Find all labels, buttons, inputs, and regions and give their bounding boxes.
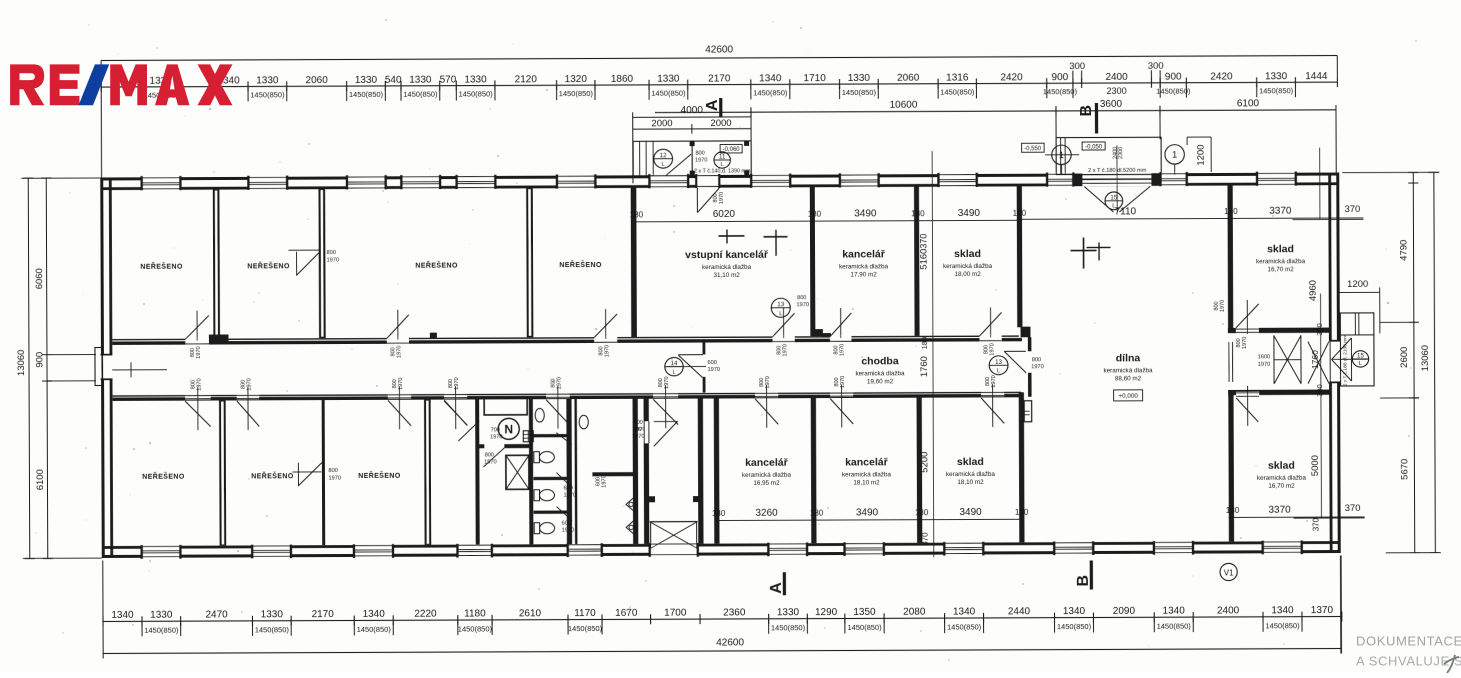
svg-text:1970: 1970 bbox=[1242, 337, 1248, 349]
svg-text:600: 600 bbox=[562, 521, 571, 527]
svg-text:1970: 1970 bbox=[564, 493, 576, 499]
door in partition P2 bottom with leader bbox=[292, 471, 321, 472]
svg-text:1450(850): 1450(850) bbox=[403, 90, 438, 99]
svg-text:1330: 1330 bbox=[261, 609, 284, 620]
wall under N-room with door bbox=[479, 444, 484, 448]
svg-text:6100: 6100 bbox=[35, 469, 46, 490]
svg-text:1330: 1330 bbox=[464, 74, 487, 85]
svg-text:-0,050: -0,050 bbox=[1085, 144, 1103, 150]
svg-text:900: 900 bbox=[1051, 72, 1068, 83]
svg-text:1: 1 bbox=[1059, 150, 1064, 160]
building top wall inner edge bbox=[102, 182, 1337, 190]
svg-text:2440: 2440 bbox=[1008, 606, 1031, 617]
svg-text:180: 180 bbox=[1224, 207, 1238, 216]
svg-text:2600: 2600 bbox=[1399, 347, 1410, 368]
bottom row partition b2-b3 bbox=[322, 400, 326, 546]
svg-text:keramická dlažba: keramická dlažba bbox=[842, 471, 892, 478]
svg-text:V1: V1 bbox=[1224, 568, 1234, 577]
svg-text:N: N bbox=[504, 422, 513, 436]
side exit passage bottom wall bbox=[1228, 390, 1331, 396]
door bottom sklad from passage bbox=[1236, 392, 1259, 398]
svg-text:1970: 1970 bbox=[840, 344, 846, 356]
top chain 1450(850) window sublabels bbox=[141, 88, 142, 102]
vstupni entry door swing bbox=[697, 188, 698, 213]
svg-text:1350: 1350 bbox=[853, 607, 876, 618]
svg-text:1970: 1970 bbox=[1031, 364, 1043, 370]
window top wall T12 1450(850) bbox=[1161, 172, 1187, 187]
side exit double door leaves bbox=[1332, 338, 1352, 359]
svg-text:1450(850): 1450(850) bbox=[940, 87, 975, 96]
door circle 12 L porch bbox=[654, 149, 673, 168]
svg-text:1450(850): 1450(850) bbox=[1265, 621, 1300, 630]
svg-text:370: 370 bbox=[918, 234, 928, 249]
left entrance axis mark bbox=[112, 369, 167, 370]
svg-text:1970: 1970 bbox=[1220, 300, 1226, 312]
svg-text:kancelář: kancelář bbox=[842, 248, 886, 260]
level label -0,050 box bbox=[1082, 142, 1105, 150]
svg-text:2080: 2080 bbox=[903, 607, 926, 618]
door 800/1970 corridor north side D4 with swing bbox=[773, 335, 795, 342]
svg-text:42600: 42600 bbox=[705, 44, 733, 55]
garage door jamb piers 300 bbox=[1073, 174, 1083, 187]
door 800/1970 corridor south side S9 with swing bbox=[981, 392, 1004, 397]
bottom chain 1450(850) sublabels bbox=[142, 623, 143, 637]
door 800/1970 corridor north side D2 with swing bbox=[387, 337, 409, 344]
svg-text:-0,550: -0,550 bbox=[1024, 146, 1042, 152]
svg-text:dílna: dílna bbox=[1116, 352, 1141, 364]
sklad bottom east wall bbox=[1019, 392, 1025, 542]
kancelar b1 west wall bbox=[714, 398, 720, 544]
svg-text:180: 180 bbox=[915, 508, 929, 517]
window top wall T13 1450(850) bbox=[1257, 171, 1296, 186]
svg-text:2090: 2090 bbox=[1113, 606, 1136, 617]
svg-text:1970: 1970 bbox=[397, 346, 403, 358]
svg-text:2000: 2000 bbox=[651, 118, 672, 129]
svg-text:2420: 2420 bbox=[1000, 72, 1023, 83]
corridor east end wall with door bbox=[1028, 337, 1032, 351]
svg-text:1970: 1970 bbox=[454, 377, 460, 389]
partition kancelar-sklad top bbox=[914, 187, 920, 336]
window bottom wall B5 1450(850) bbox=[568, 543, 602, 557]
REMAX logo bbox=[10, 64, 232, 105]
svg-text:800: 800 bbox=[328, 468, 337, 474]
bottom dimension chain line bbox=[103, 616, 1342, 622]
top right 1200 window dim bbox=[1187, 136, 1211, 139]
svg-text:NEŘEŠENO: NEŘEŠENO bbox=[251, 471, 294, 480]
door 800/1970 corridor south side S5 with swing bbox=[546, 393, 570, 398]
svg-text:2300: 2300 bbox=[1118, 147, 1124, 159]
svg-text:1970: 1970 bbox=[765, 376, 771, 388]
svg-text:13: 13 bbox=[995, 359, 1002, 366]
sklad bottom right west wall bbox=[1228, 395, 1234, 542]
sanitary right room wall x635 bbox=[633, 398, 639, 544]
svg-text:4790: 4790 bbox=[1399, 240, 1410, 261]
svg-text:18,10 m2: 18,10 m2 bbox=[853, 479, 880, 486]
building outer wall bottom edge bbox=[102, 550, 1341, 558]
partition kancelar b1-b2 bbox=[811, 398, 817, 544]
bottom row partition b1-b2 bbox=[219, 400, 226, 546]
svg-text:3490: 3490 bbox=[958, 208, 981, 219]
top rooms interior dim line 6020 3490 3490 bbox=[633, 220, 1021, 222]
svg-text:1970: 1970 bbox=[328, 476, 340, 482]
vstupni axis crosses bbox=[718, 235, 744, 237]
svg-text:keramická dlažba: keramická dlažba bbox=[1104, 367, 1154, 374]
svg-text:16,70 m2: 16,70 m2 bbox=[1267, 266, 1294, 273]
svg-text:1340: 1340 bbox=[759, 73, 782, 84]
svg-text:kancelář: kancelář bbox=[745, 457, 789, 469]
window bottom wall B11 1450(850) bbox=[1263, 540, 1302, 554]
svg-text:13: 13 bbox=[777, 301, 784, 308]
svg-text:L: L bbox=[721, 162, 724, 168]
svg-text:3490: 3490 bbox=[856, 507, 879, 518]
building left wall bbox=[100, 177, 105, 558]
svg-text:1330: 1330 bbox=[657, 74, 680, 85]
svg-text:7110: 7110 bbox=[1115, 206, 1137, 217]
svg-text:31,10 m2: 31,10 m2 bbox=[713, 272, 740, 279]
dilna axis crosses bbox=[1083, 238, 1085, 269]
svg-text:2610: 2610 bbox=[519, 608, 542, 619]
svg-text:540: 540 bbox=[385, 75, 402, 86]
pen mark bottom right corner bbox=[1444, 655, 1459, 673]
window bottom wall B4 1450(850) bbox=[458, 543, 492, 557]
svg-text:2470: 2470 bbox=[205, 609, 228, 620]
door circle 15 L garage bbox=[1105, 192, 1123, 210]
svg-text:1970: 1970 bbox=[695, 158, 707, 164]
door circle 11 L porch inner bbox=[714, 152, 730, 168]
door 800/1970 corridor north side D6 with swing bbox=[980, 334, 1002, 341]
right washroom divider wall bbox=[592, 472, 637, 476]
partition vstupni-kancelar with steps bbox=[810, 187, 816, 330]
svg-text:2220: 2220 bbox=[414, 609, 437, 620]
dilna east wall / sklad partition P8 bbox=[1227, 185, 1233, 328]
svg-text:800: 800 bbox=[633, 427, 642, 433]
svg-text:1330: 1330 bbox=[256, 75, 279, 86]
svg-text:5670: 5670 bbox=[1399, 459, 1410, 480]
svg-text:sklad: sklad bbox=[954, 248, 981, 260]
urinal U2 bbox=[626, 520, 634, 534]
svg-text:800: 800 bbox=[797, 295, 806, 301]
svg-text:B: B bbox=[1075, 575, 1092, 587]
svg-text:1330: 1330 bbox=[848, 73, 871, 84]
svg-text:5160: 5160 bbox=[919, 249, 930, 270]
window top wall T1 1450(850) bbox=[142, 176, 181, 191]
vstupni entry door in top wall bbox=[696, 174, 719, 187]
dilna interior dim line 7110 3370 bbox=[1021, 217, 1363, 219]
window top wall T5 1450(850) bbox=[457, 174, 496, 189]
door 800/1970 corridor north side D5 with swing bbox=[830, 335, 851, 342]
svg-text:42600: 42600 bbox=[716, 637, 744, 648]
dilna left wall upper bbox=[1017, 186, 1023, 327]
porch divider bbox=[692, 141, 693, 176]
svg-text:300: 300 bbox=[1069, 61, 1085, 72]
svg-text:1970: 1970 bbox=[247, 378, 253, 390]
svg-text:15: 15 bbox=[1110, 194, 1117, 201]
svg-text:3260: 3260 bbox=[755, 508, 778, 519]
svg-text:keramická dlažba: keramická dlažba bbox=[946, 471, 996, 478]
svg-text:1450(850): 1450(850) bbox=[1043, 87, 1078, 96]
svg-text:NEŘEŠENO: NEŘEŠENO bbox=[140, 262, 183, 271]
rear vestibule opening in bottom wall with stairs bbox=[650, 543, 698, 557]
svg-text:800: 800 bbox=[695, 151, 704, 157]
duct symbol on sklad bottom east wall bbox=[1024, 401, 1032, 422]
vertical reference line through sklad rooms bbox=[932, 151, 934, 557]
svg-text:1450(850): 1450(850) bbox=[250, 90, 285, 99]
vestibule west door opening bbox=[644, 421, 649, 443]
svg-text:180: 180 bbox=[1013, 209, 1027, 218]
svg-text:1340: 1340 bbox=[1163, 606, 1186, 617]
change marker V1 circle bottom bbox=[1220, 563, 1237, 580]
svg-text:A: A bbox=[704, 99, 721, 111]
top row partition room2-room3 bbox=[318, 189, 325, 338]
door 800/1970 corridor south side S2 with swing bbox=[237, 395, 259, 400]
passage stair mid line bbox=[1274, 359, 1301, 360]
svg-text:900: 900 bbox=[1165, 72, 1182, 83]
svg-text:1970: 1970 bbox=[632, 434, 644, 440]
svg-text:4960: 4960 bbox=[1308, 280, 1319, 301]
svg-text:6020: 6020 bbox=[713, 209, 736, 220]
svg-text:kancelář: kancelář bbox=[845, 456, 889, 468]
svg-text:4000: 4000 bbox=[681, 105, 704, 116]
door circle 13 L at vstupni door bbox=[771, 298, 790, 317]
building right wall bbox=[1336, 173, 1341, 554]
svg-text:1760: 1760 bbox=[1310, 350, 1320, 369]
porch door swing bbox=[666, 154, 691, 175]
level label -0,550 box bbox=[1022, 143, 1045, 152]
svg-text:1450(850): 1450(850) bbox=[458, 624, 493, 633]
svg-text:1340: 1340 bbox=[363, 609, 386, 620]
svg-text:NEŘEŠENO: NEŘEŠENO bbox=[415, 261, 458, 270]
svg-text:18,10 m2: 18,10 m2 bbox=[957, 479, 984, 486]
axis circle 1 right bbox=[1165, 145, 1184, 164]
side exit exterior landing with step bbox=[1340, 313, 1374, 386]
svg-text:L: L bbox=[779, 311, 782, 317]
svg-text:NEŘEŠENO: NEŘEŠENO bbox=[247, 261, 290, 270]
window top wall T9 1450(850) bbox=[840, 173, 879, 188]
top row partition room3-room4 bbox=[526, 188, 533, 337]
entry porch outline bbox=[633, 141, 751, 176]
svg-text:570: 570 bbox=[440, 75, 457, 86]
svg-text:11: 11 bbox=[719, 153, 726, 160]
sanitary door swings misc bbox=[444, 401, 467, 425]
svg-text:800: 800 bbox=[327, 250, 336, 256]
svg-text:1970: 1970 bbox=[557, 377, 563, 389]
svg-text:L: L bbox=[672, 370, 675, 376]
svg-text:1670: 1670 bbox=[615, 608, 638, 619]
top row partition room4-vstupni kancelar thick bbox=[631, 188, 637, 337]
svg-text:370: 370 bbox=[1344, 204, 1360, 215]
garage center line bbox=[1117, 145, 1118, 211]
svg-text:NEŘEŠENO: NEŘEŠENO bbox=[559, 260, 602, 269]
svg-text:1970: 1970 bbox=[719, 192, 725, 204]
svg-text:1970: 1970 bbox=[196, 346, 202, 358]
window top wall T7 1450(850) bbox=[649, 174, 688, 189]
svg-text:1970: 1970 bbox=[708, 367, 720, 373]
svg-text:2360: 2360 bbox=[723, 607, 746, 618]
svg-text:keramická dlažba: keramická dlažba bbox=[943, 263, 993, 270]
svg-text:1450(850): 1450(850) bbox=[559, 89, 594, 98]
pilaster jog on corridor top wall bbox=[430, 333, 437, 339]
window top wall T3 1450(850) bbox=[347, 175, 386, 190]
window top wall T4 1450(850) bbox=[401, 175, 440, 190]
svg-text:L: L bbox=[1359, 361, 1362, 367]
svg-text:13060: 13060 bbox=[1420, 345, 1431, 371]
svg-text:15: 15 bbox=[1357, 352, 1364, 359]
window bottom wall B10 1450(850) bbox=[1154, 541, 1193, 555]
svg-text:1970: 1970 bbox=[398, 378, 404, 390]
door top sklad to passage bbox=[1236, 328, 1259, 333]
svg-text:keramická dlažba: keramická dlažba bbox=[856, 370, 906, 377]
svg-text:sklad: sklad bbox=[1267, 243, 1294, 255]
svg-text:5200: 5200 bbox=[919, 452, 930, 473]
svg-text:1970: 1970 bbox=[327, 258, 339, 264]
window bottom wall B1 1450(850) bbox=[142, 545, 181, 559]
svg-text:2170: 2170 bbox=[312, 609, 335, 620]
svg-text:1970: 1970 bbox=[196, 378, 202, 390]
left entrance door opening in left wall bbox=[100, 354, 113, 380]
svg-text:1450(850): 1450(850) bbox=[1157, 622, 1192, 631]
svg-text:1316: 1316 bbox=[946, 72, 969, 83]
svg-text:3600: 3600 bbox=[1100, 99, 1123, 110]
vestibule east wall bbox=[698, 398, 704, 544]
wash basin right room bbox=[579, 415, 588, 429]
corridor top wall bbox=[112, 335, 1018, 340]
svg-text:180: 180 bbox=[630, 210, 644, 219]
svg-text:180: 180 bbox=[808, 210, 822, 219]
svg-text:180: 180 bbox=[712, 509, 726, 518]
door 800/1970 corridor south side S6 with swing bbox=[653, 393, 678, 398]
top dimension chain line bbox=[101, 82, 1337, 88]
garage door opening in top wall bbox=[1082, 172, 1152, 186]
shaft box with X bbox=[506, 455, 529, 489]
door 800/1970 corridor north side D3 with swing bbox=[594, 336, 617, 343]
svg-text:1450(850): 1450(850) bbox=[753, 88, 788, 97]
svg-text:1970: 1970 bbox=[664, 376, 670, 388]
svg-text:88,60 m2: 88,60 m2 bbox=[1115, 375, 1142, 382]
svg-text:1970: 1970 bbox=[991, 375, 997, 387]
sanitary wall x566 thick bbox=[566, 399, 572, 545]
garage exterior apron bbox=[1056, 137, 1161, 174]
svg-text:2400: 2400 bbox=[1217, 605, 1240, 616]
svg-text:1330: 1330 bbox=[777, 607, 800, 618]
electro symbol N circle bbox=[498, 418, 519, 439]
svg-text:A SCHVALUJE SE: A SCHVALUJE SE bbox=[1356, 654, 1461, 669]
svg-text:1450(850): 1450(850) bbox=[458, 89, 493, 98]
svg-text:1450(850): 1450(850) bbox=[771, 623, 806, 632]
svg-text:DOKUMENTACE: DOKUMENTACE bbox=[1356, 634, 1461, 649]
svg-text:1340: 1340 bbox=[953, 606, 976, 617]
wc stall door swings bbox=[556, 433, 572, 445]
svg-text:B: B bbox=[1078, 105, 1095, 117]
svg-text:chodba: chodba bbox=[861, 355, 899, 367]
svg-text:1450(850): 1450(850) bbox=[842, 88, 877, 97]
overall bottom dimension 42600 bbox=[103, 648, 1341, 654]
sanitary N-room top counter bbox=[484, 398, 527, 415]
svg-text:1970: 1970 bbox=[840, 376, 846, 388]
door 800/1970 corridor north side D1 with swing bbox=[185, 338, 209, 345]
svg-text:6100: 6100 bbox=[1237, 98, 1260, 109]
sanitary wall x475 bbox=[475, 399, 480, 545]
svg-text:900: 900 bbox=[34, 352, 45, 368]
window bottom wall B6 1450(850) bbox=[768, 542, 807, 556]
svg-text:1170: 1170 bbox=[574, 608, 596, 619]
svg-text:NEŘEŠENO: NEŘEŠENO bbox=[358, 471, 401, 480]
svg-text:180: 180 bbox=[1226, 506, 1240, 515]
right dimension lines 13060 / 370 4790 2600 5670 bbox=[1413, 172, 1416, 552]
left dimension lines 13060 / 6060 900 6100 bbox=[28, 178, 31, 559]
top row partition room1-room2 bbox=[213, 190, 220, 339]
bottom row partition b3-sanitary bbox=[424, 399, 431, 545]
sanitary duct wall x575 bbox=[574, 399, 577, 545]
svg-text:1330: 1330 bbox=[355, 75, 378, 86]
svg-text:700: 700 bbox=[491, 427, 500, 433]
svg-text:14: 14 bbox=[671, 360, 678, 367]
svg-text:3370: 3370 bbox=[1269, 206, 1292, 217]
svg-text:keramická dlažba: keramická dlažba bbox=[702, 264, 752, 271]
svg-text:1450(850): 1450(850) bbox=[651, 89, 686, 98]
porch steps bbox=[639, 141, 640, 176]
svg-text:1: 1 bbox=[1172, 150, 1177, 160]
svg-text:1450(850): 1450(850) bbox=[1057, 622, 1092, 631]
svg-text:1200: 1200 bbox=[1196, 144, 1207, 165]
svg-text:1370: 1370 bbox=[1311, 605, 1334, 616]
svg-text:1450(850): 1450(850) bbox=[568, 624, 603, 633]
svg-text:2060: 2060 bbox=[897, 73, 920, 84]
svg-text:1340: 1340 bbox=[111, 610, 134, 621]
svg-text:6060: 6060 bbox=[34, 268, 45, 289]
wash basin wc column bbox=[535, 408, 544, 422]
building bottom wall inner edge bbox=[104, 541, 1339, 549]
bottom rooms interior dim line 3260 3490 3490 bbox=[717, 519, 1023, 521]
svg-text:1700: 1700 bbox=[664, 608, 687, 619]
building outer wall top edge bbox=[100, 173, 1339, 181]
appliance grid symbol bbox=[523, 431, 533, 442]
svg-text:1340: 1340 bbox=[1063, 606, 1086, 617]
svg-text:300: 300 bbox=[1315, 323, 1324, 336]
corridor divider door swing bbox=[678, 354, 703, 355]
svg-text:1330: 1330 bbox=[409, 75, 432, 86]
window bottom wall B7 1450(850) bbox=[845, 542, 884, 556]
svg-text:600: 600 bbox=[707, 360, 716, 366]
svg-text:1450(850): 1450(850) bbox=[847, 623, 882, 632]
svg-text:1450(850): 1450(850) bbox=[357, 625, 392, 634]
svg-text:2000: 2000 bbox=[710, 118, 731, 129]
wc stall walls bbox=[533, 434, 567, 437]
svg-text:2170: 2170 bbox=[708, 73, 731, 84]
svg-text:1290: 1290 bbox=[815, 607, 838, 618]
svg-text:1970: 1970 bbox=[1258, 362, 1270, 368]
tier2 dimension line 10600 3600 6100 bbox=[655, 109, 1336, 113]
window bottom wall B2 1450(850) bbox=[252, 544, 291, 558]
svg-text:1970: 1970 bbox=[604, 345, 610, 357]
svg-text:18,00 m2: 18,00 m2 bbox=[954, 271, 981, 278]
door circle 14 L corridor west bbox=[665, 357, 683, 375]
level box +0,000 dilna bbox=[1114, 390, 1143, 401]
vestibule west wall bbox=[644, 398, 650, 544]
svg-text:19,60 m2: 19,60 m2 bbox=[867, 378, 894, 385]
vestibule inner door swing bbox=[654, 421, 678, 446]
svg-text:1330: 1330 bbox=[150, 610, 173, 621]
window top wall T6 1450(850) bbox=[557, 174, 595, 189]
svg-text:L: L bbox=[662, 162, 665, 168]
svg-text:1970: 1970 bbox=[782, 344, 788, 356]
svg-text:300: 300 bbox=[1315, 384, 1324, 397]
svg-text:keramická dlažba: keramická dlažba bbox=[839, 263, 889, 270]
svg-text:370: 370 bbox=[921, 532, 930, 546]
door 800/1970 corridor south side S4 with swing bbox=[444, 394, 467, 399]
svg-text:1450(850): 1450(850) bbox=[1259, 86, 1294, 95]
svg-text:1450(850): 1450(850) bbox=[255, 625, 290, 634]
urinal U1 bbox=[626, 497, 634, 511]
